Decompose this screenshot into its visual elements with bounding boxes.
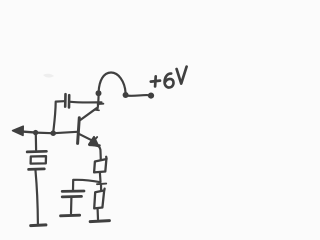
- wire node A to node B: [36, 132, 52, 135]
- wire C1 to collector node: [71, 101, 102, 104]
- capacitor C2 bottom plate: [62, 195, 81, 198]
- wire arc to +6V: [99, 72, 126, 93]
- transistor Q1 collector lead: [80, 108, 97, 120]
- transistor Q1 base wire: [54, 132, 77, 133]
- wire collector vertical: [98, 93, 99, 109]
- ground bar (C2): [61, 214, 80, 218]
- wire node B up to capacitor C1: [53, 101, 64, 132]
- ground bar (R2): [90, 221, 109, 222]
- transistor Q1 emitter lead with arrow: [79, 134, 94, 141]
- junction dot at arc end: [123, 92, 129, 98]
- wire node A down to crystal Y1: [35, 134, 37, 150]
- crystal Y1 bottom plate: [29, 168, 45, 171]
- crystal Y1 top plate: [27, 150, 46, 153]
- +6V terminal dot: [148, 93, 154, 99]
- collector node junction dot: [96, 90, 102, 96]
- node X tick: [97, 183, 106, 186]
- wire Y1 to ground: [36, 171, 38, 224]
- transistor Q1 base bar: [78, 118, 80, 144]
- label +6V : letter V: [177, 67, 187, 84]
- node A junction dot: [33, 130, 38, 135]
- wire R2 to ground: [96, 209, 99, 219]
- resistor R1 (box): [94, 157, 107, 173]
- wire to +6V terminal: [127, 94, 151, 97]
- wire R1 to node X: [99, 173, 102, 183]
- label +6V : plus sign: [151, 76, 160, 86]
- resistor R2 (box): [94, 189, 104, 209]
- capacitor C1 (series feedback): [64, 94, 67, 106]
- faint pencil smudge: [43, 74, 54, 78]
- ground bar (Y1): [31, 223, 46, 227]
- capacitor C2 top plate: [62, 190, 84, 193]
- crystal Y1 box: [31, 156, 46, 163]
- wire node X to resistor R2: [100, 184, 102, 191]
- label +6V : digit 6: [165, 74, 174, 88]
- node B junction dot: [50, 130, 56, 136]
- wire C2 to ground: [70, 198, 73, 214]
- wire branch node X to capacitor C2: [73, 180, 100, 190]
- wire emitter to resistor R1: [98, 146, 101, 160]
- output arrow: [23, 130, 35, 133]
